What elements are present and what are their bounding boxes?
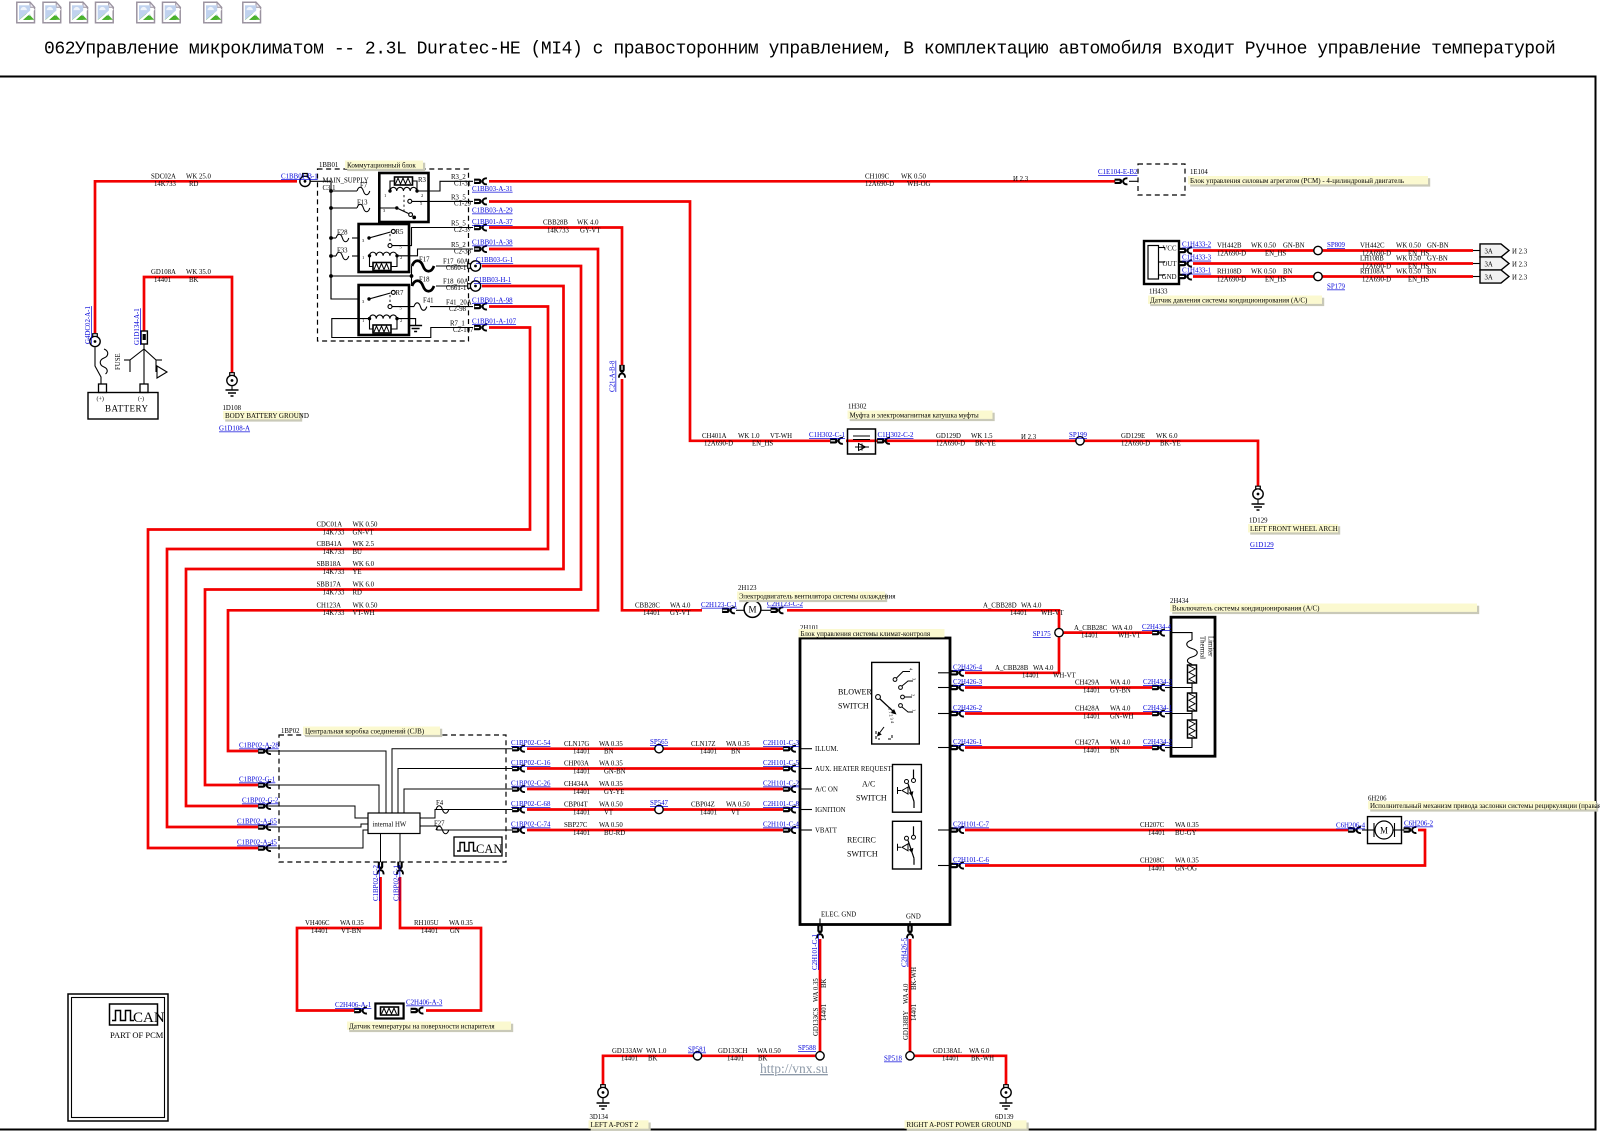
- CJB left connectors: [258, 748, 271, 754]
- svg-text:14401: 14401: [700, 809, 717, 816]
- R7 pin1 output loop to C2-107: [332, 319, 473, 338]
- svg-text:WH-VT: WH-VT: [1041, 610, 1064, 617]
- splice SP175: [1055, 628, 1063, 636]
- connector C6H206-2: [1404, 827, 1417, 833]
- ground eyelet 1D129: [1249, 486, 1268, 524]
- svg-text:12A690-D: 12A690-D: [704, 441, 733, 448]
- svg-text:VT: VT: [731, 809, 741, 816]
- svg-text:G1D134-A-1: G1D134-A-1: [134, 308, 141, 345]
- svg-text:VCC: VCC: [1163, 246, 1177, 253]
- svg-text:C2H101-C-7: C2H101-C-7: [953, 822, 990, 829]
- svg-text:RIGHT A-POST POWER GROUND: RIGHT A-POST POWER GROUND: [907, 1121, 1012, 1129]
- svg-text:Центральная коробка соединений: Центральная коробка соединений (CJB): [305, 727, 425, 735]
- inline connector C21-A-B-8: [619, 365, 625, 378]
- connector C1H302-C-1: [830, 438, 843, 444]
- svg-text:R3: R3: [418, 177, 427, 184]
- svg-text:WH-OG: WH-OG: [907, 181, 930, 188]
- svg-text:BK: BK: [189, 277, 199, 284]
- svg-text:A_CBB28C: A_CBB28C: [1074, 625, 1108, 632]
- svg-text:14401: 14401: [1083, 713, 1100, 720]
- R5 pin5 output to C2-37: [392, 228, 473, 246]
- fuse F18 60A: [412, 281, 434, 292]
- svg-text:CH427A: CH427A: [1075, 740, 1100, 747]
- svg-text:CH434A: CH434A: [564, 781, 589, 788]
- connector C1H433-1: [1179, 274, 1192, 280]
- svg-text:1: 1: [384, 193, 386, 198]
- svg-text:C2H101-C-6: C2H101-C-6: [953, 857, 990, 864]
- module left connectors: [783, 746, 796, 752]
- svg-text:CBB28C: CBB28C: [635, 603, 660, 610]
- svg-text:WK 1.0: WK 1.0: [738, 433, 760, 440]
- svg-text:SP588: SP588: [798, 1045, 817, 1052]
- connector C2H434-1: [1152, 711, 1165, 717]
- connector C1BB03-G-1 ring: [468, 261, 481, 271]
- svg-text:WA 0.50: WA 0.50: [599, 822, 623, 829]
- svg-text:ELEC. GND: ELEC. GND: [821, 912, 856, 919]
- svg-text:3: 3: [383, 208, 386, 213]
- svg-text:C2H434-1: C2H434-1: [1143, 705, 1173, 712]
- relay R5: [359, 224, 409, 272]
- svg-text:C660-1: C660-1: [446, 265, 466, 272]
- wire labels group: [151, 174, 1449, 1063]
- connector C1BB01-B-1: [300, 174, 310, 187]
- svg-text:Датчик давления системы кондиц: Датчик давления системы кондиционировани…: [1150, 296, 1308, 304]
- svg-text:И 2.3: И 2.3: [1021, 434, 1037, 441]
- svg-text:GD138BY: GD138BY: [903, 1010, 910, 1040]
- splice SP581: [693, 1052, 701, 1060]
- svg-text:WA 4.0: WA 4.0: [1110, 706, 1131, 713]
- fuse F41: [392, 306, 414, 308]
- svg-text:BATTERY: BATTERY: [105, 404, 149, 414]
- svg-text:C1BB01-A-107: C1BB01-A-107: [472, 318, 517, 325]
- svg-text:SBB18A: SBB18A: [317, 561, 342, 568]
- svg-text:F41: F41: [423, 298, 434, 305]
- fuse F17 60A: [412, 261, 434, 272]
- svg-text:F18: F18: [419, 277, 430, 284]
- svg-text:C2H426-5: C2H426-5: [902, 937, 909, 967]
- battery positive lead with fuse: [95, 348, 101, 384]
- svg-text:WK 0.50: WK 0.50: [1251, 269, 1277, 276]
- splice SP565: [655, 745, 663, 753]
- svg-text:WA 0.35: WA 0.35: [340, 920, 364, 927]
- ground eyelet 3D134: [590, 1085, 610, 1121]
- svg-text:14401: 14401: [700, 749, 717, 756]
- yellow description labels: [223, 161, 1600, 1131]
- svg-text:CBP04Z: CBP04Z: [691, 802, 715, 809]
- CJB right connectors: [512, 746, 525, 752]
- svg-text:LEFT FRONT WHEEL ARCH: LEFT FRONT WHEEL ARCH: [1250, 525, 1338, 533]
- svg-text:И 2.3: И 2.3: [1512, 262, 1528, 269]
- svg-text:RD: RD: [189, 181, 199, 188]
- svg-text:14401: 14401: [1083, 747, 1100, 754]
- svg-text:SBB17A: SBB17A: [317, 582, 342, 589]
- svg-text:SP199: SP199: [1069, 432, 1088, 439]
- svg-text:WA 4.0: WA 4.0: [670, 603, 691, 610]
- svg-text:C2H426-3: C2H426-3: [953, 679, 983, 686]
- svg-text:LEFT A-POST 2: LEFT A-POST 2: [591, 1121, 639, 1129]
- svg-text:CH123A: CH123A: [317, 603, 342, 610]
- svg-text:WK 0.50: WK 0.50: [901, 174, 927, 181]
- svg-text:GN: GN: [450, 928, 460, 935]
- svg-text:WK 6.0: WK 6.0: [353, 561, 375, 568]
- wire A_CBB28B SP175 to C2H426-4: [965, 637, 1059, 673]
- svg-text:1BP02: 1BP02: [281, 728, 300, 735]
- svg-text:WK 6.0: WK 6.0: [1156, 433, 1178, 440]
- svg-text:VH406C: VH406C: [305, 920, 330, 927]
- svg-text:WA 4.0: WA 4.0: [1112, 625, 1133, 632]
- svg-text:C1BB01-A-38: C1BB01-A-38: [472, 240, 513, 247]
- svg-text:062Управление микроклиматом --: 062Управление микроклиматом -- 2.3L Dura…: [44, 39, 1555, 60]
- svg-text:SBP27C: SBP27C: [564, 822, 588, 829]
- svg-text:WA 0.35: WA 0.35: [599, 781, 623, 788]
- wire CH401A / GD129D / GD129E clutch circuit: [489, 202, 830, 441]
- svg-text:SP179: SP179: [1327, 284, 1346, 291]
- svg-text:1H302: 1H302: [848, 404, 867, 411]
- svg-text:WK 0.50: WK 0.50: [353, 603, 379, 610]
- svg-text:14401: 14401: [821, 1004, 828, 1021]
- svg-text:RH108D: RH108D: [1217, 269, 1242, 276]
- svg-text:C2H123-C-1: C2H123-C-1: [701, 602, 738, 609]
- svg-text:2: 2: [911, 694, 916, 696]
- R7 coil to ground: [397, 319, 416, 326]
- svg-text:Коммутационный блок: Коммутационный блок: [347, 161, 416, 169]
- svg-text:BK-WH: BK-WH: [971, 1056, 994, 1063]
- svg-text:4: 4: [909, 668, 914, 671]
- svg-text:14401: 14401: [573, 809, 590, 816]
- svg-text:BN: BN: [1110, 747, 1120, 754]
- bus to R7 switch: [331, 276, 359, 299]
- fuse F27: [436, 826, 449, 834]
- svg-text:WA 0.50: WA 0.50: [726, 802, 750, 809]
- svg-text:C2-98: C2-98: [449, 306, 467, 313]
- svg-text:CH208C: CH208C: [1140, 858, 1165, 865]
- wire CH429A module to A/C switch: [965, 686, 1152, 689]
- svg-text:GD133CH: GD133CH: [718, 1048, 748, 1055]
- svg-text:WA 0.35: WA 0.35: [1175, 822, 1199, 829]
- svg-text:WA 0.35: WA 0.35: [599, 761, 623, 768]
- svg-text:WK 0.50: WK 0.50: [353, 522, 379, 529]
- svg-text:C1BB01-B-1: C1BB01-B-1: [281, 173, 318, 180]
- CJB bottom pins: [380, 834, 382, 863]
- svg-text:GN-BN: GN-BN: [604, 768, 626, 775]
- svg-text:2: 2: [421, 193, 423, 198]
- svg-text:C21-A-B-8: C21-A-B-8: [610, 360, 617, 392]
- splice SP547: [655, 805, 663, 813]
- svg-text:WK 2.5: WK 2.5: [353, 541, 375, 548]
- svg-text:C1BB03-A-29: C1BB03-A-29: [472, 208, 513, 215]
- module right connectors: [951, 670, 964, 676]
- svg-text:C1H433-3: C1H433-3: [1182, 255, 1212, 262]
- recirc switch: [847, 821, 921, 869]
- wire CLN17G/CLN17Z CJB to ILLUM: [527, 747, 783, 750]
- svg-text:WK 35.0: WK 35.0: [186, 269, 212, 276]
- connector pin row a29: [474, 198, 487, 204]
- wire VH442B/VH442C sensor VCC row: [1193, 249, 1473, 252]
- svg-text:14401: 14401: [727, 1056, 744, 1063]
- svg-text:C2H406-A-3: C2H406-A-3: [406, 1000, 443, 1007]
- connector C2H406-A-1: [354, 1008, 367, 1014]
- splice SP518: [906, 1052, 914, 1060]
- svg-text:GY-VT: GY-VT: [580, 227, 601, 234]
- svg-text:BK-YE: BK-YE: [975, 441, 996, 448]
- svg-text:GN-WH: GN-WH: [1110, 713, 1133, 720]
- splice SP179: [1314, 272, 1322, 280]
- svg-text:G1D108-A: G1D108-A: [219, 426, 250, 433]
- svg-text:14401: 14401: [621, 1056, 638, 1063]
- connector C2H123-C-1: [722, 607, 735, 613]
- svg-text:WA 4.0: WA 4.0: [1110, 740, 1131, 747]
- svg-text:14401: 14401: [911, 1004, 918, 1021]
- svg-text:14401: 14401: [311, 928, 328, 935]
- svg-text:GD138AL: GD138AL: [933, 1048, 962, 1055]
- svg-text:WH-VT: WH-VT: [1053, 673, 1076, 680]
- svg-text:C1BB03-H-1: C1BB03-H-1: [474, 277, 512, 284]
- svg-text:BK: BK: [821, 978, 828, 988]
- wire RH108D/RH108A sensor GND row: [1193, 275, 1473, 278]
- svg-text:14401: 14401: [1148, 865, 1165, 872]
- off-page arrows 3A: [1473, 250, 1480, 252]
- svg-text:internal HW: internal HW: [373, 822, 407, 829]
- svg-text:R5: R5: [396, 229, 405, 236]
- svg-text:RH105U: RH105U: [414, 920, 439, 927]
- wire CH207C module to actuator: [965, 829, 1348, 832]
- connector pin row a107: [474, 325, 487, 331]
- svg-text:VT: VT: [604, 809, 614, 816]
- svg-text:WA 4.0: WA 4.0: [1021, 603, 1042, 610]
- svg-text:F13: F13: [357, 200, 368, 207]
- svg-text:GY-BN: GY-BN: [1110, 687, 1131, 694]
- wire CBB41A relay A-98 to CJB A-65: [167, 307, 548, 828]
- svg-text:C1H302-C-2: C1H302-C-2: [878, 432, 915, 439]
- svg-text:14401: 14401: [573, 768, 590, 775]
- svg-text:1BB01: 1BB01: [319, 162, 338, 169]
- svg-text:C1BP02-C-68: C1BP02-C-68: [511, 801, 551, 808]
- ground eyelet 6D139: [995, 1085, 1014, 1121]
- svg-text:A_CBB28D: A_CBB28D: [983, 603, 1017, 610]
- svg-text:BLOWER: BLOWER: [838, 688, 872, 697]
- svg-text:14401: 14401: [421, 928, 438, 935]
- relay box 1BB01 dashed outline: [318, 169, 469, 341]
- svg-text:SP175: SP175: [1033, 631, 1052, 638]
- svg-text:GN-VT: GN-VT: [353, 529, 375, 536]
- svg-text:12A690-D: 12A690-D: [865, 181, 894, 188]
- connector C1H433-2: [1179, 248, 1192, 254]
- svg-text:F4: F4: [436, 800, 444, 807]
- fuse F13: [331, 207, 357, 209]
- fuse F4: [436, 806, 449, 814]
- svg-text:CH429A: CH429A: [1075, 680, 1100, 687]
- svg-text:14401: 14401: [1083, 687, 1100, 694]
- connector pin row a98: [474, 304, 487, 310]
- splice SP588: [816, 1052, 824, 1060]
- svg-text:14401: 14401: [573, 749, 590, 756]
- svg-text:CLN17Z: CLN17Z: [691, 741, 716, 748]
- svg-text:A/C ON: A/C ON: [815, 787, 838, 794]
- svg-text:14401: 14401: [1010, 610, 1027, 617]
- svg-text:C2H101-C-2: C2H101-C-2: [763, 781, 800, 788]
- svg-text:GD108A: GD108A: [151, 269, 176, 276]
- svg-text:14K733: 14K733: [323, 610, 346, 617]
- svg-text:C1H302-C-1: C1H302-C-1: [809, 432, 846, 439]
- svg-text:C1BB03-A-31: C1BB03-A-31: [472, 186, 513, 193]
- connector C2H434-2: [1152, 745, 1165, 751]
- svg-text:Выключатель системы кондициони: Выключатель системы кондиционирования (A…: [1172, 604, 1320, 612]
- svg-text:CH401A: CH401A: [702, 433, 727, 440]
- svg-text:GY-BN: GY-BN: [1427, 256, 1448, 263]
- svg-text:WA 0.35: WA 0.35: [599, 741, 623, 748]
- battery negative lead multi-ground: [143, 344, 145, 384]
- wire A_CBB28D fan to SP175: [787, 610, 1059, 628]
- svg-text:VBATT: VBATT: [815, 828, 838, 835]
- svg-text:WA 4.0: WA 4.0: [1110, 680, 1131, 687]
- wire LH108B sensor OUT row: [1193, 262, 1473, 265]
- svg-text:C1BB01-A-37: C1BB01-A-37: [472, 219, 513, 226]
- splice SP809: [1314, 246, 1322, 254]
- svg-text:C1BP02-A-65: C1BP02-A-65: [237, 819, 277, 826]
- svg-text:C1BP02-G-2: C1BP02-G-2: [242, 798, 279, 805]
- wire CH123A relay to CJB A-28: [228, 249, 598, 751]
- svg-text:C2-37: C2-37: [454, 227, 472, 234]
- svg-text:(-): (-): [138, 396, 144, 403]
- svg-text:12A690-D: 12A690-D: [1217, 276, 1246, 283]
- svg-text:C1BP02-C-1: C1BP02-C-1: [394, 864, 401, 901]
- svg-text:EN_HS: EN_HS: [1265, 250, 1286, 257]
- A/C pressure sensor 1H433: [1144, 241, 1179, 296]
- connector C1H302-C-2: [877, 438, 890, 444]
- svg-text:SP565: SP565: [650, 739, 669, 746]
- svg-text:14401: 14401: [1022, 673, 1039, 680]
- A/C clutch coil 1H302: [848, 404, 876, 455]
- svg-text:Датчик температуры на поверхно: Датчик температуры на поверхности испари…: [349, 1022, 495, 1030]
- svg-text:CH207C: CH207C: [1140, 822, 1165, 829]
- svg-text:GY-VT: GY-VT: [670, 610, 691, 617]
- wire CH427A module to A/C switch: [965, 746, 1152, 749]
- svg-text:C2H101-C-5: C2H101-C-5: [763, 760, 800, 767]
- svg-text:WK 6.0: WK 6.0: [353, 582, 375, 589]
- wire SDC02A battery feed: [95, 181, 297, 333]
- battery eyelet G4DC02-A-1: [90, 334, 100, 347]
- splice SP199: [1076, 437, 1084, 445]
- svg-text:14K733: 14K733: [154, 181, 177, 188]
- svg-text:14401: 14401: [942, 1056, 959, 1063]
- svg-text:F7: F7: [360, 183, 368, 190]
- svg-text:C2H434-4: C2H434-4: [1142, 624, 1172, 631]
- connector C1H433-3: [1179, 261, 1192, 267]
- svg-text:IGNITION: IGNITION: [815, 807, 846, 814]
- svg-text:Электродвигатель вентилятора с: Электродвигатель вентилятора системы охл…: [739, 592, 896, 600]
- svg-text:C661-1: C661-1: [446, 285, 466, 292]
- svg-text:F33: F33: [337, 248, 348, 255]
- wire CDC01A relay A-107 to CJB A-45: [148, 328, 530, 849]
- svg-text:BN: BN: [604, 749, 614, 756]
- wire GD138BY module GND drop: [909, 939, 912, 1056]
- svg-text:BK-WH: BK-WH: [911, 967, 918, 990]
- svg-text:GN-OG: GN-OG: [1175, 865, 1197, 872]
- svg-text:WA 0.35: WA 0.35: [813, 978, 820, 1002]
- wire GD133CS module ELEC.GND drop: [819, 939, 822, 1056]
- svg-text:CH428A: CH428A: [1075, 706, 1100, 713]
- connector C1E104-E-B2: [1115, 178, 1128, 184]
- wire GD108A battery ground: [144, 277, 232, 374]
- svg-text:Блок управления системы климат: Блок управления системы климат-контроля: [801, 630, 931, 638]
- svg-text:3D134: 3D134: [590, 1114, 609, 1121]
- svg-text:C1BP02-A-28: C1BP02-A-28: [239, 743, 279, 750]
- svg-text:C1H433-1: C1H433-1: [1182, 268, 1212, 275]
- svg-text:WK 0.50: WK 0.50: [1396, 269, 1422, 276]
- A/C switch assembly 2H434: [1165, 598, 1215, 756]
- svg-text:6D139: 6D139: [995, 1114, 1014, 1121]
- svg-text:C1-31: C1-31: [454, 181, 471, 188]
- svg-text:SWITCH: SWITCH: [847, 850, 878, 859]
- svg-text:F28: F28: [337, 230, 348, 237]
- svg-text:12A690-D: 12A690-D: [1121, 441, 1150, 448]
- connector C2H406-A-3: [411, 1008, 424, 1014]
- svg-text:WA 4.0: WA 4.0: [903, 983, 910, 1004]
- svg-text:14K733: 14K733: [323, 529, 346, 536]
- svg-text:GD133AW: GD133AW: [612, 1048, 643, 1055]
- svg-text:Thermal: Thermal: [1199, 636, 1206, 659]
- svg-text:GN-BN: GN-BN: [1427, 243, 1449, 250]
- svg-text:BN: BN: [1427, 269, 1437, 276]
- vertical wire labels: [813, 967, 918, 1040]
- svg-text:GD133CS: GD133CS: [813, 1007, 820, 1036]
- PCM 1E104 dashed box: [1138, 164, 1185, 195]
- svg-text:C2H406-A-1: C2H406-A-1: [335, 1002, 372, 1009]
- svg-text:PART OF PCM: PART OF PCM: [110, 1030, 164, 1040]
- svg-text:14K733: 14K733: [323, 549, 346, 556]
- svg-text:C2H426-4: C2H426-4: [953, 664, 983, 671]
- svg-text:RH108A: RH108A: [1360, 269, 1385, 276]
- svg-text:Исполнительный механизм привод: Исполнительный механизм привода заслонки…: [1370, 802, 1600, 810]
- wire SBP27C CJB to VBATT: [527, 829, 783, 832]
- svg-text:BU-RD: BU-RD: [604, 830, 625, 837]
- svg-text:C1BP02-C-26: C1BP02-C-26: [511, 781, 551, 788]
- connector C2H434-4: [1152, 630, 1165, 636]
- svg-text:WK 0.50: WK 0.50: [1251, 243, 1277, 250]
- svg-text:WA 0.35: WA 0.35: [1175, 858, 1199, 865]
- svg-text:LH108B: LH108B: [1360, 256, 1384, 263]
- connector C6H206-4: [1348, 827, 1361, 833]
- svg-text:Limiter: Limiter: [1207, 636, 1214, 657]
- svg-text:14K733: 14K733: [547, 227, 570, 234]
- connector pin row a31: [474, 178, 487, 184]
- svg-text:SP518: SP518: [884, 1056, 903, 1063]
- svg-text:(+): (+): [97, 396, 104, 403]
- connector pin row a38: [474, 246, 487, 252]
- svg-text:A_CBB28B: A_CBB28B: [995, 665, 1029, 672]
- svg-text:G4DC02-A-1: G4DC02-A-1: [85, 306, 92, 344]
- svg-text:1: 1: [362, 255, 364, 260]
- fuse F7: [331, 190, 357, 192]
- wire RH105U CJB to evaporator sensor: [400, 877, 481, 1011]
- svg-text:12A690-D: 12A690-D: [936, 441, 965, 448]
- svg-text:A/C: A/C: [862, 780, 875, 789]
- svg-text:BK-YE: BK-YE: [1160, 441, 1181, 448]
- fuse F28: [331, 237, 336, 239]
- branch to 60A fuses: [331, 275, 412, 277]
- svg-text:M: M: [1380, 826, 1388, 836]
- svg-text:1E104: 1E104: [1190, 169, 1208, 176]
- svg-text:2H123: 2H123: [738, 585, 757, 592]
- svg-text:И 2.3: И 2.3: [1512, 275, 1528, 282]
- svg-text:C2H434-2: C2H434-2: [1143, 739, 1173, 746]
- svg-text:C2H101-C-3: C2H101-C-3: [763, 740, 800, 747]
- CAN logo in CJB: [454, 837, 502, 856]
- wire A_CBB28C SP175 to A/C switch: [1063, 631, 1152, 634]
- svg-text:C1E104-E-B2: C1E104-E-B2: [1098, 169, 1138, 176]
- svg-text:GD129D: GD129D: [936, 433, 961, 440]
- svg-text:1H433: 1H433: [1149, 289, 1168, 296]
